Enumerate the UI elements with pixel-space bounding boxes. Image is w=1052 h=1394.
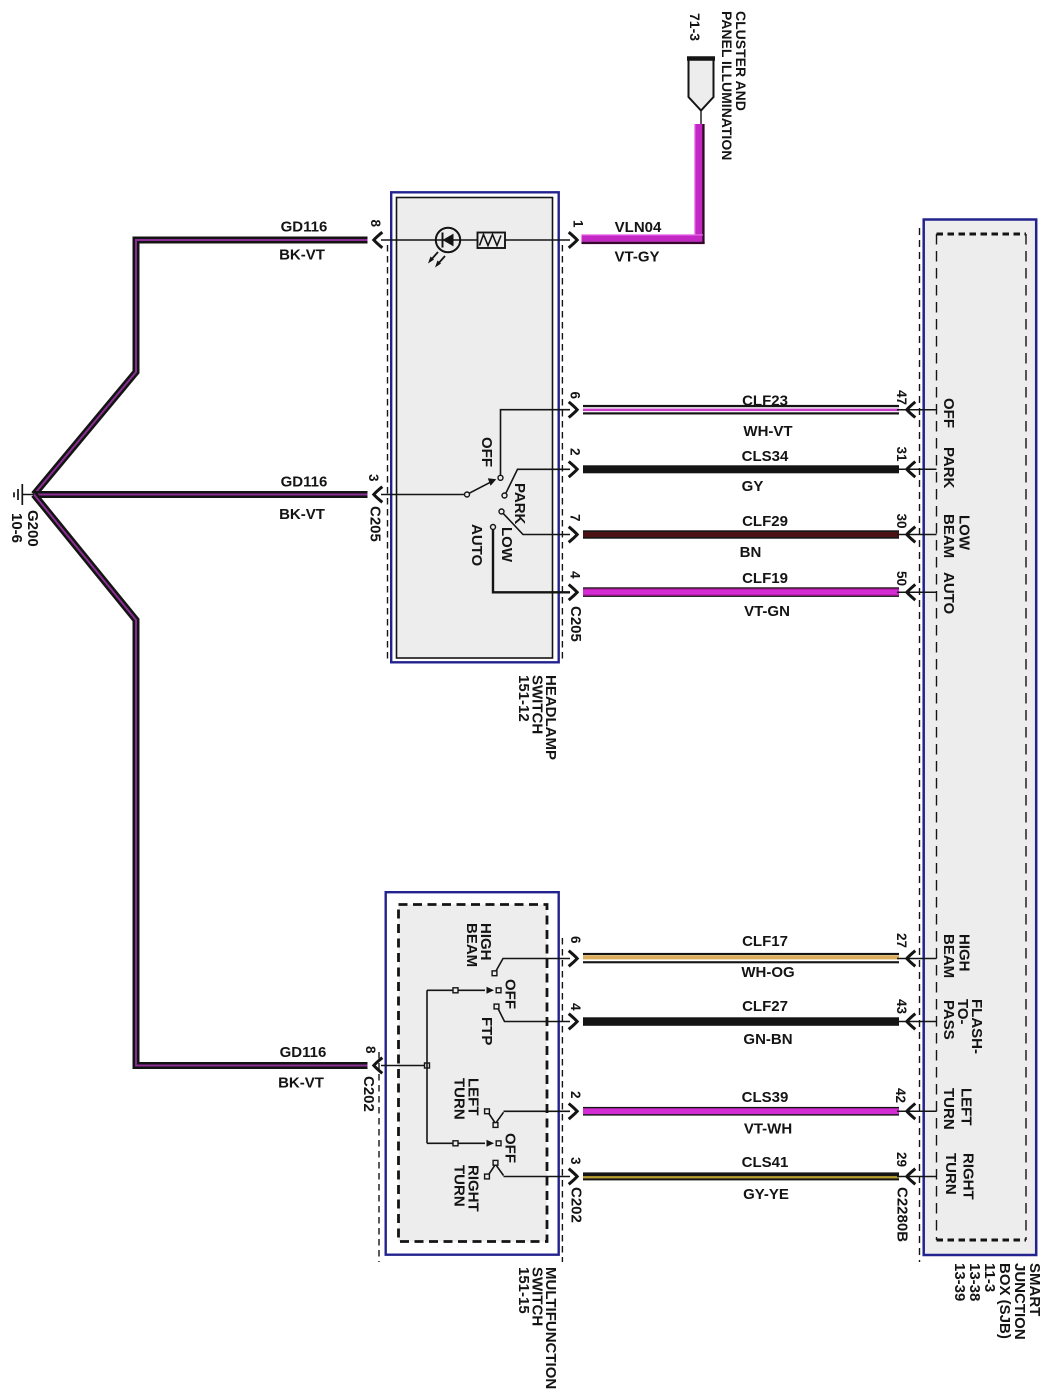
svg-text:BEAM: BEAM [940, 934, 957, 978]
ground symbol G200 [14, 484, 34, 505]
svg-text:PASS: PASS [940, 1000, 957, 1040]
multifunction pin 3 arrow [569, 1169, 578, 1185]
multifunction pin 6 arrow [569, 951, 578, 967]
svg-text:LEFT: LEFT [958, 1088, 975, 1126]
svg-text:VT-GY: VT-GY [614, 249, 659, 266]
svg-text:43: 43 [894, 999, 909, 1015]
svg-text:PANEL ILLUMINATION: PANEL ILLUMINATION [719, 11, 735, 160]
LEFT TURN contact and wire to pin 2 [485, 1109, 570, 1128]
svg-text:TURN: TURN [940, 1088, 957, 1130]
SJB pin 31 arrow and stub [897, 462, 937, 478]
svg-text:VT-WH: VT-WH [744, 1121, 792, 1138]
svg-text:50: 50 [894, 571, 909, 586]
svg-text:GY: GY [742, 478, 764, 495]
svg-text:27: 27 [894, 933, 909, 948]
OFF contact (turn signal) [496, 1141, 501, 1146]
svg-text:151-12: 151-12 [515, 675, 532, 722]
svg-text:WH-OG: WH-OG [741, 964, 794, 981]
svg-text:42: 42 [893, 1088, 908, 1103]
ground wire GD116 middle branch (BK-VT) [34, 491, 368, 498]
OFF contact (beam select) [496, 988, 501, 993]
headlamp switch pole contact [465, 492, 470, 497]
svg-text:TURN: TURN [942, 1153, 959, 1195]
svg-text:BK-VT: BK-VT [279, 247, 325, 264]
wire CLF27 GN-BN (pin 4 to SJB 43) [583, 1017, 899, 1026]
svg-text:31: 31 [894, 447, 909, 463]
beam select pole line with terminal square and arm arrow [427, 987, 494, 994]
turn signal pole line with terminal square and arm arrow [427, 1140, 494, 1147]
svg-text:C205: C205 [367, 506, 384, 542]
svg-text:BEAM: BEAM [940, 514, 957, 558]
wire VLN04 VT-GY (magenta) from connector to pin 1 [582, 124, 705, 244]
pin 3 wire stub into headlamp box [381, 494, 465, 496]
wire CLS41 GY-YE (pin 3 to SJB 29) [583, 1172, 899, 1180]
SJB pin 43 arrow and stub [897, 1014, 937, 1030]
svg-text:4: 4 [568, 571, 583, 579]
svg-text:151-15: 151-15 [515, 1267, 532, 1314]
SJB pin 42 arrow and stub [897, 1104, 937, 1120]
pin 7 arrow headlamp switch [569, 527, 578, 543]
label HIGH BEAM (SJB) [940, 934, 973, 978]
svg-text:GD116: GD116 [281, 219, 328, 236]
FTP contact and wire to pin 4 [494, 1004, 570, 1021]
svg-text:CLF17: CLF17 [742, 933, 788, 950]
svg-text:OFF: OFF [478, 437, 495, 467]
svg-text:G200: G200 [24, 510, 41, 547]
label CLUSTER AND PANEL ILLUMINATION [719, 11, 749, 160]
svg-text:WH-VT: WH-VT [743, 423, 792, 440]
svg-text:30: 30 [894, 514, 909, 529]
off-page connector symbol: cluster and panel illumination [687, 58, 715, 124]
pin 1 arrow headlamp switch [569, 232, 578, 248]
svg-text:3: 3 [568, 1157, 583, 1165]
svg-text:OFF: OFF [940, 398, 957, 428]
headlamp switch connector dashed line right C205 [561, 245, 563, 662]
svg-text:BEAM: BEAM [463, 923, 480, 967]
svg-text:CLF19: CLF19 [742, 570, 788, 587]
svg-text:47: 47 [894, 390, 909, 405]
label SMART JUNCTION BOX (SJB) [951, 1263, 1043, 1340]
multifunction switch connector dashed line right C202 [561, 938, 563, 1262]
ground wire GD116 upper branch (BK-VT) [34, 240, 368, 495]
SJB pin 30 arrow and stub [897, 527, 937, 543]
svg-text:8: 8 [368, 220, 383, 228]
pin 3 arrow headlamp switch [374, 487, 383, 503]
svg-text:LOW: LOW [498, 527, 515, 563]
label HIGH BEAM (switch) [463, 923, 494, 967]
svg-text:BK-VT: BK-VT [278, 1075, 324, 1092]
multifunction switch pin 8 arrow [374, 1058, 383, 1074]
label LEFT TURN (SJB) [940, 1088, 975, 1130]
svg-text:29: 29 [894, 1152, 909, 1167]
label LOW BEAM (SJB) [940, 514, 973, 558]
svg-text:RIGHT: RIGHT [960, 1153, 977, 1200]
svg-text:C2280B: C2280B [894, 1187, 911, 1242]
lamp symbol (panel illumination LED) [428, 228, 460, 268]
multifunction switch connector dashed line left C202 [378, 1052, 380, 1262]
svg-text:2: 2 [568, 1091, 583, 1099]
label MULTIFUNCTION SWITCH 151-15 [515, 1267, 559, 1389]
svg-text:LOW: LOW [956, 515, 973, 551]
HIGH BEAM contact and wire to pin 6 [492, 959, 570, 976]
headlamp switch connector dashed line left C205 [387, 245, 389, 662]
svg-text:HIGH: HIGH [956, 934, 973, 972]
svg-text:AUTO: AUTO [468, 524, 485, 567]
svg-text:C205: C205 [567, 606, 584, 642]
svg-text:1: 1 [571, 220, 586, 228]
SJB pin 47 arrow and stub [897, 402, 937, 418]
label HEADLAMP SWITCH 151-12 [515, 675, 559, 760]
SJB outer connector dashed line C2280 [919, 228, 921, 1262]
svg-text:GD116: GD116 [280, 1044, 327, 1061]
svg-text:4: 4 [568, 1003, 583, 1011]
svg-text:VLN04: VLN04 [615, 219, 662, 236]
svg-text:CLF27: CLF27 [742, 998, 788, 1015]
multifunction pin 4 arrow [569, 1014, 578, 1030]
svg-text:GD116: GD116 [281, 474, 328, 491]
svg-text:CLS41: CLS41 [742, 1154, 789, 1171]
headlamp switch arm with arrowhead [469, 478, 496, 493]
SJB pin 29 arrow and stub [897, 1169, 937, 1185]
wire CLS39 VT-WH (pin 2 to SJB 42) [583, 1107, 899, 1116]
svg-text:FTP: FTP [478, 1017, 495, 1045]
wire CLS34 GY (pin 2 to SJB 31) [583, 465, 899, 473]
label RIGHT TURN (SJB) [942, 1153, 977, 1200]
SJB inner dashed connector rectangle [937, 234, 1027, 1240]
wire CLF19 VT-GN (pin 4 to SJB 50) [583, 587, 899, 597]
svg-text:7: 7 [568, 514, 583, 522]
pin 6 arrow headlamp switch [569, 402, 578, 418]
OFF contact and wire to pin 6 [498, 410, 570, 481]
SJB pin 50 arrow and stub [897, 585, 937, 601]
svg-text:3: 3 [366, 474, 381, 482]
PARK contact and wire to pin 2 [502, 469, 570, 498]
multifunction switch common vertical [426, 990, 428, 1143]
svg-text:OFF: OFF [502, 1133, 519, 1163]
svg-text:C202: C202 [568, 1187, 585, 1223]
svg-text:TURN: TURN [451, 1165, 468, 1207]
ground wire GD116 lower branch (BK-VT) [34, 495, 368, 1066]
label LEFT TURN (switch) [451, 1078, 482, 1120]
svg-text:10-6: 10-6 [8, 513, 25, 543]
pin 2 arrow headlamp switch [569, 462, 578, 478]
svg-text:TURN: TURN [451, 1078, 468, 1120]
svg-text:AUTO: AUTO [940, 572, 957, 615]
wire CLF17 WH-OG (pin 6 to SJB 27) [583, 953, 899, 963]
svg-text:71-3: 71-3 [687, 13, 703, 41]
junction square [425, 1063, 430, 1068]
label FLASH-TO-PASS (SJB) [940, 999, 985, 1054]
svg-text:6: 6 [568, 392, 583, 400]
pin 8 wire stub into headlamp box [381, 239, 570, 241]
SJB pin 27 arrow and stub [897, 951, 937, 967]
pin 4 arrow headlamp switch [569, 585, 578, 601]
wire CLF29 BN (pin 7 to SJB 30) [583, 530, 899, 538]
AUTO contact and wire to pin 4 [491, 525, 571, 593]
svg-text:6: 6 [568, 936, 583, 944]
label RIGHT TURN (switch) [451, 1165, 482, 1212]
svg-text:8: 8 [363, 1046, 378, 1054]
svg-text:CLF23: CLF23 [742, 393, 788, 410]
svg-text:13-39: 13-39 [951, 1263, 968, 1301]
multifunction switch box outline [386, 892, 559, 1254]
label G200 10-6 [8, 510, 41, 547]
wire CLF23 WH-VT (pin 6 to SJB 47) [583, 405, 899, 415]
svg-text:VT-GN: VT-GN [744, 603, 790, 620]
svg-text:CLS34: CLS34 [742, 448, 789, 465]
multifunction pin 2 arrow [569, 1104, 578, 1120]
svg-text:2: 2 [568, 448, 583, 456]
svg-text:BN: BN [740, 544, 762, 561]
svg-text:C202: C202 [360, 1076, 377, 1112]
RIGHT TURN contact and wire to pin 3 [485, 1160, 570, 1179]
SJB box: smart junction box outline [924, 220, 1036, 1256]
svg-text:GN-BN: GN-BN [743, 1031, 792, 1048]
svg-text:PARK: PARK [511, 483, 528, 525]
LOW contact and wire to pin 7 [499, 509, 570, 535]
svg-text:CLF29: CLF29 [742, 513, 788, 530]
resistor (rheostat) [478, 233, 506, 249]
svg-text:OFF: OFF [502, 979, 519, 1009]
pin 8 stub to junction [381, 1065, 427, 1067]
svg-text:CLS39: CLS39 [742, 1089, 789, 1106]
headlamp switch box outline [391, 192, 559, 662]
svg-text:BK-VT: BK-VT [279, 506, 325, 523]
svg-text:PARK: PARK [940, 447, 957, 489]
svg-text:GY-YE: GY-YE [743, 1186, 789, 1203]
pin 8 arrow headlamp switch [374, 232, 383, 248]
